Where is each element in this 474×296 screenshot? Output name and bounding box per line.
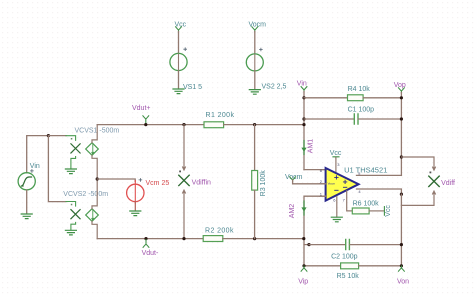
node Vdut+ symbol [143, 116, 149, 123]
junction C1 right [400, 117, 403, 120]
wire Vin bottom [26, 190, 28, 214]
wire VS2 top [254, 32, 256, 55]
VCVS1 input bottom bracket [71, 157, 76, 169]
op-amp triangle U1 [326, 168, 359, 201]
ground Vcm [130, 211, 141, 216]
Vdiffin plus dot [179, 171, 181, 173]
wire top rail right [224, 124, 304, 126]
wire to Vcm [97, 179, 135, 182]
junction Vdut- [144, 237, 147, 240]
svg-text:Vdiffin: Vdiffin [192, 180, 211, 187]
junction R1 right [302, 123, 305, 126]
junction R5 left [302, 264, 305, 267]
svg-text:Vip: Vip [298, 278, 308, 285]
wire IN- to AM2 column [304, 196, 326, 266]
svg-text:Vcc: Vcc [330, 150, 342, 157]
VCVS1 diamond [86, 143, 99, 156]
resistor R3 [252, 171, 258, 191]
op-amp internal minus right [343, 186, 346, 188]
wire R5 right [359, 265, 402, 267]
svg-text:Vocm: Vocm [328, 182, 336, 186]
wire down left column [48, 136, 66, 202]
voltmeter Vdiffin X [179, 175, 189, 185]
VCVS1 output bottom bracket [92, 155, 97, 179]
wire Vdiff top [401, 157, 435, 170]
ground VS2 [249, 90, 260, 95]
VCVS1 diamond internal arrow [92, 144, 94, 155]
node Vop symbol [399, 88, 405, 93]
junction Vdut+ [144, 123, 147, 126]
capacitor C1 [354, 114, 358, 124]
wire bottom rail right [223, 238, 304, 240]
svg-text:AM2: AM2 [289, 204, 296, 219]
VS1 plus mark [184, 48, 187, 51]
wire Vdiff bottom [401, 191, 435, 205]
voltage source VS1 circle [170, 53, 187, 70]
junction Vdiffin bottom [182, 237, 185, 240]
wire R6 right [369, 210, 384, 212]
svg-text:Vcm 25: Vcm 25 [146, 180, 170, 187]
wire Vdiffin bottom [183, 190, 186, 238]
Vin sine glyph [22, 177, 32, 186]
wire VS1 bottom [178, 71, 180, 89]
voltage source Vin circle [18, 173, 35, 190]
wire pin IN- stub [320, 195, 326, 197]
VCVS2 diamond internal arrow [92, 210, 94, 221]
junction Vdiffin top [182, 123, 185, 126]
op-amp Vcc pin wire [335, 158, 337, 175]
resistor R6 [352, 208, 369, 214]
wire R4 left [304, 97, 348, 99]
node Vdut- symbol [143, 240, 149, 248]
svg-text:C1 100p: C1 100p [348, 106, 375, 113]
wire pin IN+ stub [320, 169, 326, 171]
wire C2 left [309, 244, 345, 246]
junction C1 left [302, 117, 305, 120]
junction R4 left [302, 96, 305, 99]
resistor R5 [341, 263, 359, 269]
resistor R2 [203, 236, 223, 242]
VCVS1 input X [71, 144, 80, 153]
svg-text:Vdiff: Vdiff [441, 180, 455, 187]
VCVS2 output top bracket [92, 179, 97, 209]
node Vocm stub symbol [290, 177, 296, 182]
svg-text:R1 200k: R1 200k [206, 112, 235, 119]
svg-text:R3 100k: R3 100k [260, 170, 267, 197]
voltmeter Vdiff X [429, 176, 439, 186]
Vin plus mark [31, 170, 34, 173]
wire top rail left [97, 124, 204, 126]
wire pin VOCM stub [320, 183, 326, 185]
svg-text:Vin: Vin [30, 163, 40, 170]
svg-text:Vocm: Vocm [285, 174, 303, 181]
svg-text:C2 100p: C2 100p [331, 254, 358, 261]
capacitor C2 [346, 239, 350, 249]
junction lower output [400, 193, 403, 196]
node Vip symbol [301, 266, 307, 271]
Vcm internal line [134, 181, 136, 204]
junction C2 left [307, 243, 310, 246]
wire to op-amp IN+ [304, 169, 325, 171]
ammeter AM2 arrow [303, 201, 305, 215]
node Vin symbol [301, 87, 307, 92]
ground Vin [21, 214, 32, 219]
svg-text:R2 200k: R2 200k [205, 227, 234, 234]
svg-text:R5 10k: R5 10k [337, 273, 360, 280]
node Vocm symbol [252, 27, 258, 32]
junction R3 top [253, 123, 256, 126]
wire Vop column [400, 93, 402, 176]
wire OUT- lower [357, 189, 402, 194]
ground VCVS1 input [65, 169, 76, 174]
ground VCVS2 input [65, 230, 76, 235]
svg-text:Von: Von [397, 278, 409, 285]
junction C2 right [400, 243, 403, 246]
wire Von column upper [400, 194, 402, 266]
VCVS1 input top bracket [66, 136, 76, 141]
svg-text:Vcc: Vcc [385, 205, 392, 217]
op-amp internal minus bottom [335, 189, 338, 191]
svg-text:VS1 5: VS1 5 [183, 84, 202, 91]
wire C2 stub [304, 244, 309, 246]
wire C1 right [358, 118, 401, 120]
wire Vocm to pin2 [293, 180, 326, 184]
svg-text:AM1: AM1 [308, 139, 315, 154]
svg-text:U1 THS4521: U1 THS4521 [344, 166, 387, 175]
wire Vin top [27, 136, 49, 173]
VCVS2 diamond [86, 209, 99, 222]
ground op-amp [331, 217, 342, 222]
op-amp PD pin wire to R6 [347, 191, 353, 211]
junction R5 right [400, 264, 403, 267]
wire to VCVS1 input [48, 135, 66, 137]
node Vcc symbol [176, 27, 182, 32]
voltage source Vcm circle [127, 184, 144, 201]
svg-text:R6 100k: R6 100k [353, 201, 380, 208]
VCVS1 input terminal dot top [71, 138, 73, 140]
op-amp ground pin wire [336, 197, 338, 218]
wire VS1 top [178, 32, 180, 54]
wire Vcm bottom [134, 202, 136, 211]
ammeter AM1 arrow [303, 141, 305, 155]
junction R3 bottom [253, 237, 256, 240]
wire C2 right [350, 244, 402, 246]
ground VS1 [173, 89, 184, 94]
svg-text:Vdut-: Vdut- [142, 250, 159, 257]
junction node at Vin branch [47, 134, 50, 137]
VCVS2 input top bracket [66, 202, 76, 207]
junction Vop tap [400, 155, 403, 158]
VCVS2 input X [71, 210, 80, 219]
Vdiff plus dot [430, 172, 432, 174]
wire R3 bottom [254, 190, 256, 239]
resistor R4 [348, 95, 364, 101]
junction node VCVS mid [96, 177, 99, 180]
op-amp Vcc T symbol [333, 157, 339, 158]
Vcm plus mark [139, 179, 142, 182]
resistor R1 [204, 122, 224, 128]
wire C1 left [304, 118, 354, 120]
VCVS2 input bottom bracket [71, 222, 76, 230]
junction bottom rail right end [302, 237, 305, 240]
node Von symbol [399, 266, 405, 271]
voltage source VS2 circle [246, 54, 263, 71]
op-amp internal plus right [343, 180, 346, 183]
wire OUT+ upper [357, 174, 402, 176]
svg-text:VS2 2,5: VS2 2,5 [262, 84, 287, 91]
op-amp internal plus top [335, 176, 338, 179]
junction R4 right [400, 96, 403, 99]
VS2 internal line [254, 54, 256, 70]
wire Vin column [303, 92, 305, 170]
wire bottom rail left [97, 238, 203, 240]
VCVS1 output top bracket [92, 125, 97, 143]
wire R4 right [363, 97, 401, 99]
wire VS2 bottom [254, 71, 256, 90]
svg-text:Vin: Vin [297, 81, 307, 88]
wire R3 top [254, 125, 256, 171]
wire Vdiffin top [183, 125, 186, 170]
VS1 internal line [178, 54, 180, 70]
VS2 plus mark [260, 48, 263, 51]
svg-text:VCVS2 -500m: VCVS2 -500m [63, 191, 108, 198]
Vcc T symbol right [383, 207, 385, 216]
VCVS2 input terminal dot top [71, 204, 73, 206]
svg-text:R4 10k: R4 10k [348, 86, 371, 93]
VCVS2 output bottom bracket [92, 221, 97, 238]
wire R5 left [304, 265, 341, 267]
svg-text:Vdut+: Vdut+ [132, 105, 151, 112]
